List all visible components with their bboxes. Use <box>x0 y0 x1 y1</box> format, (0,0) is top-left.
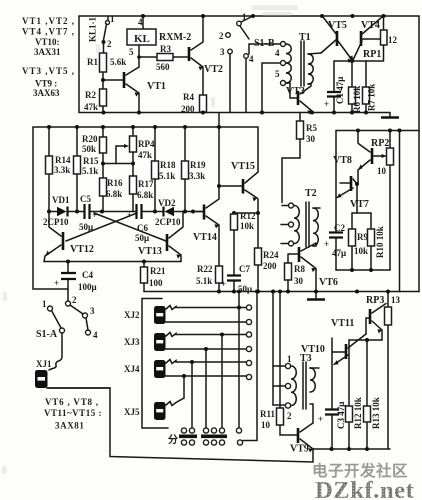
svg-text:4: 4 <box>93 330 98 340</box>
svg-text:3AX81: 3AX81 <box>55 421 85 431</box>
svg-text:VT13: VT13 <box>138 246 162 257</box>
svg-text:R2: R2 <box>85 90 96 100</box>
svg-text:VT11~VT15 :: VT11~VT15 : <box>44 408 102 418</box>
svg-text:VT2: VT2 <box>204 64 223 75</box>
svg-text:VT12: VT12 <box>70 244 94 255</box>
svg-text:RP1: RP1 <box>363 49 381 60</box>
svg-text:VT3: VT3 <box>286 86 305 97</box>
svg-text:+: + <box>324 239 329 249</box>
svg-text:VD2: VD2 <box>158 198 176 208</box>
svg-text:R4: R4 <box>183 92 194 102</box>
svg-text:1: 1 <box>287 354 292 364</box>
svg-text:3: 3 <box>220 47 225 57</box>
svg-text:47k: 47k <box>138 150 152 160</box>
svg-text:VT6 , VT8 ,: VT6 , VT8 , <box>45 397 99 407</box>
svg-text:12: 12 <box>388 35 398 45</box>
svg-text:5.1k: 5.1k <box>159 171 175 181</box>
svg-text:C1 47μ: C1 47μ <box>335 77 345 104</box>
svg-text:XJ3: XJ3 <box>124 337 140 347</box>
svg-text:VT6: VT6 <box>319 277 338 288</box>
svg-text:1: 1 <box>110 14 115 24</box>
svg-text:R21: R21 <box>150 266 166 276</box>
svg-text:R18: R18 <box>160 160 176 170</box>
svg-text:KL: KL <box>134 33 150 45</box>
svg-text:VT8: VT8 <box>333 155 352 166</box>
svg-text:5.1k: 5.1k <box>196 276 212 286</box>
svg-text:VT5: VT5 <box>328 20 347 31</box>
svg-text:R20: R20 <box>82 134 98 144</box>
svg-text:R15: R15 <box>83 156 99 166</box>
svg-text:100μ: 100μ <box>78 282 97 292</box>
svg-text:VT3 ,VT5 ,: VT3 ,VT5 , <box>22 66 75 76</box>
svg-text:R14: R14 <box>55 155 71 165</box>
svg-text:RP3: RP3 <box>366 295 384 306</box>
svg-text:VT1 ,VT2 ,: VT1 ,VT2 , <box>22 16 75 26</box>
svg-text:C5: C5 <box>80 194 91 204</box>
svg-text:10: 10 <box>377 166 387 176</box>
svg-text:R13 10k: R13 10k <box>371 397 381 429</box>
svg-text:1: 1 <box>242 12 247 22</box>
svg-text:VT1: VT1 <box>147 81 166 92</box>
svg-text:R6 10k: R6 10k <box>352 86 362 113</box>
svg-text:4: 4 <box>249 54 254 64</box>
svg-text:R10 10k: R10 10k <box>375 226 385 258</box>
svg-text:VT10:: VT10: <box>35 37 60 47</box>
svg-text:RP4: RP4 <box>138 139 155 149</box>
svg-text:3.3k: 3.3k <box>189 171 205 181</box>
svg-text:XJ4: XJ4 <box>124 364 140 374</box>
svg-text:VT7: VT7 <box>350 199 369 210</box>
svg-text:R19: R19 <box>190 160 206 170</box>
svg-text:3: 3 <box>90 306 95 316</box>
svg-text:KL1-1: KL1-1 <box>88 16 98 42</box>
svg-text:VT10: VT10 <box>301 344 325 355</box>
svg-text:5: 5 <box>129 47 134 57</box>
svg-text:1: 1 <box>42 299 47 309</box>
svg-text:R22: R22 <box>197 264 213 274</box>
svg-text:3AX63: 3AX63 <box>33 88 60 98</box>
svg-text:VT4: VT4 <box>361 20 380 31</box>
svg-text:+: + <box>92 210 97 220</box>
svg-text:5: 5 <box>275 69 280 79</box>
svg-text:5.1k: 5.1k <box>82 166 98 176</box>
svg-text:VT4 ,VT7 ,: VT4 ,VT7 , <box>22 27 75 37</box>
svg-text:3AX31: 3AX31 <box>34 47 61 57</box>
svg-text:C4: C4 <box>82 270 93 280</box>
svg-text:2: 2 <box>107 39 112 49</box>
svg-text:VT9 :: VT9 : <box>35 79 57 89</box>
svg-text:30: 30 <box>294 276 304 286</box>
svg-text:+: + <box>324 99 329 109</box>
svg-text:C7: C7 <box>239 264 250 274</box>
svg-text:XJ2: XJ2 <box>124 310 140 320</box>
svg-text:T2: T2 <box>305 188 317 199</box>
svg-text:分: 分 <box>168 433 178 446</box>
svg-text:VT11: VT11 <box>331 318 354 329</box>
svg-text:R8: R8 <box>294 264 305 274</box>
svg-text:R12: R12 <box>240 211 256 221</box>
svg-text:2CP10: 2CP10 <box>43 217 69 227</box>
svg-text:2: 2 <box>219 31 224 41</box>
svg-text:RXM-2: RXM-2 <box>159 32 191 43</box>
svg-text:10: 10 <box>261 420 271 430</box>
svg-text:R5: R5 <box>306 123 317 133</box>
svg-text:6.8k: 6.8k <box>106 189 122 199</box>
svg-text:R17: R17 <box>138 179 154 189</box>
svg-text:VD1: VD1 <box>52 195 70 205</box>
svg-text:2CP10: 2CP10 <box>155 217 181 227</box>
svg-text:VT15: VT15 <box>231 161 255 172</box>
svg-text:+: + <box>318 414 323 424</box>
svg-text:50μ: 50μ <box>135 233 149 243</box>
svg-text:C2: C2 <box>334 223 345 233</box>
svg-text:VT14: VT14 <box>193 232 217 243</box>
svg-text:100: 100 <box>149 278 163 288</box>
svg-text:R11: R11 <box>260 409 276 419</box>
svg-text:2: 2 <box>72 295 77 305</box>
svg-text:XJ5: XJ5 <box>124 407 140 417</box>
svg-text:10k: 10k <box>240 221 254 231</box>
svg-text:R24: R24 <box>263 250 279 260</box>
svg-text:200: 200 <box>181 104 195 114</box>
svg-text:560: 560 <box>156 62 170 72</box>
svg-text:R12 10k: R12 10k <box>353 397 363 429</box>
svg-text:+: + <box>54 278 59 288</box>
svg-text:XJ1: XJ1 <box>36 359 52 369</box>
svg-text:5.6k: 5.6k <box>110 57 126 67</box>
svg-text:6.8k: 6.8k <box>137 190 153 200</box>
svg-text:200: 200 <box>263 261 277 271</box>
svg-text:10k: 10k <box>354 246 368 256</box>
svg-text:3.3k: 3.3k <box>54 165 70 175</box>
svg-text:S1-A: S1-A <box>36 329 58 340</box>
svg-text:R3: R3 <box>160 44 171 54</box>
svg-text:4: 4 <box>138 17 143 27</box>
svg-text:R16: R16 <box>107 178 123 188</box>
svg-text:VT9: VT9 <box>290 444 309 455</box>
svg-text:DZkf.net: DZkf.net <box>315 477 415 500</box>
svg-text:47k: 47k <box>84 102 98 112</box>
svg-text:47μ: 47μ <box>332 248 346 258</box>
svg-text:C3 47μ: C3 47μ <box>336 402 346 429</box>
svg-text:2: 2 <box>287 411 292 421</box>
svg-text:30: 30 <box>306 134 316 144</box>
svg-text:R1: R1 <box>87 57 98 67</box>
svg-text:RP2: RP2 <box>371 138 389 149</box>
svg-text:4: 4 <box>275 48 280 58</box>
svg-text:13: 13 <box>391 295 401 305</box>
svg-text:50k: 50k <box>82 144 96 154</box>
svg-text:R7 10k: R7 10k <box>367 84 377 111</box>
